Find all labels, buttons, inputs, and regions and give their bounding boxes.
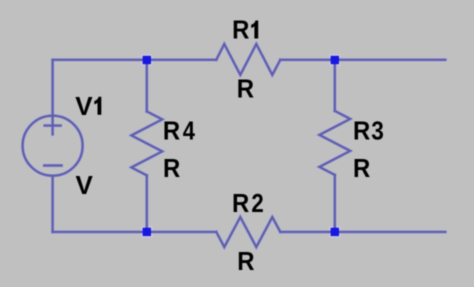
wire halo layer — [23, 44, 446, 247]
svg-text:R: R — [232, 16, 249, 45]
svg-text:V: V — [76, 170, 94, 200]
node junction top-right — [331, 56, 339, 64]
svg-text:2: 2 — [251, 190, 263, 219]
svg-text:R: R — [353, 117, 370, 146]
svg-text:V: V — [75, 91, 93, 121]
label R1 — [232, 16, 258, 45]
svg-text:R: R — [353, 154, 370, 183]
svg-text:R: R — [232, 189, 249, 218]
junction glow underlays — [141, 55, 340, 238]
svg-text:R: R — [237, 75, 254, 104]
node junction bottom-middle — [143, 228, 151, 236]
svg-text:R: R — [163, 154, 180, 183]
label R4 — [163, 117, 196, 146]
svg-text:R: R — [163, 117, 180, 146]
label R3 — [353, 117, 384, 146]
node junction bottom-right — [331, 228, 339, 236]
svg-text:4: 4 — [183, 117, 196, 146]
node junction top-middle — [143, 56, 151, 64]
svg-text:3: 3 — [371, 117, 384, 146]
wire core layer — [23, 44, 446, 247]
label V1 — [75, 91, 101, 121]
label R2 — [232, 189, 264, 218]
svg-text:R: R — [237, 247, 254, 276]
